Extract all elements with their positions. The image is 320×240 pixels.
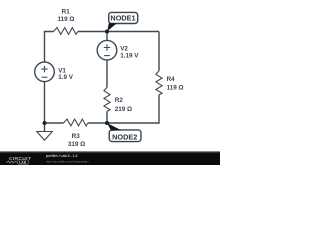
wire right branch lower bbox=[107, 95, 159, 123]
svg-text:R2: R2 bbox=[115, 97, 124, 104]
wire middle from node1 to V2 bbox=[106, 32, 108, 41]
svg-text:NODE1: NODE1 bbox=[110, 14, 135, 23]
svg-text:319 Ω: 319 Ω bbox=[68, 141, 85, 148]
node junction dot NODE1 bbox=[105, 30, 109, 34]
voltage source V2 bbox=[97, 40, 117, 60]
svg-text:V2: V2 bbox=[120, 45, 128, 52]
svg-text:219 Ω: 219 Ω bbox=[115, 106, 132, 113]
svg-text:R1: R1 bbox=[62, 8, 71, 15]
label R2 bbox=[115, 97, 132, 113]
svg-text:NODE2: NODE2 bbox=[112, 132, 137, 141]
svg-text:119 Ω: 119 Ω bbox=[58, 16, 75, 23]
wire middle from V2 to R2 bbox=[106, 60, 108, 87]
svg-text:perfleh / Lab 3 - 1.2: perfleh / Lab 3 - 1.2 bbox=[46, 154, 78, 158]
wire left from V1 bottom to ground junction bbox=[45, 82, 64, 123]
svg-text:R4: R4 bbox=[167, 76, 176, 83]
callout pointer NODE2 bbox=[107, 123, 121, 131]
wire top from R1 to node1 to top-right corner bbox=[78, 31, 159, 33]
resistor R2 bbox=[104, 87, 110, 111]
resistor R3 bbox=[64, 119, 88, 126]
label R3 bbox=[68, 133, 85, 148]
label R4 bbox=[167, 76, 184, 92]
footer bar bbox=[0, 151, 220, 165]
wire top-left from V1 top to R1 bbox=[45, 32, 54, 62]
svg-text:119 Ω: 119 Ω bbox=[167, 85, 184, 92]
wire bottom from R3 to node2 bbox=[88, 122, 107, 124]
wire middle from R2 to node2 bbox=[106, 111, 108, 123]
svg-text:1.9 V: 1.9 V bbox=[58, 74, 74, 81]
svg-text:http://circuitlab.com/c/dxzpyw: http://circuitlab.com/c/dxzpywtpx bbox=[46, 159, 89, 163]
wire right branch upper bbox=[158, 32, 160, 71]
label V1 bbox=[58, 67, 74, 81]
svg-text:1.19 V: 1.19 V bbox=[120, 52, 139, 59]
callout pointer NODE1 bbox=[107, 23, 117, 31]
label R1 bbox=[58, 8, 75, 22]
svg-text:LAB: LAB bbox=[19, 160, 27, 164]
callout box NODE1 bbox=[109, 12, 138, 23]
ground bbox=[37, 123, 53, 140]
logo CIRCUIT LAB bbox=[6, 156, 31, 164]
callout box NODE2 bbox=[109, 130, 141, 142]
resistor R1 bbox=[54, 28, 78, 35]
resistor R4 bbox=[156, 71, 162, 95]
node junction dot ground bbox=[43, 121, 47, 125]
voltage source V1 bbox=[35, 62, 55, 82]
node junction dot NODE2 bbox=[105, 121, 109, 125]
svg-text:R3: R3 bbox=[72, 133, 81, 140]
label V2 bbox=[120, 45, 139, 59]
